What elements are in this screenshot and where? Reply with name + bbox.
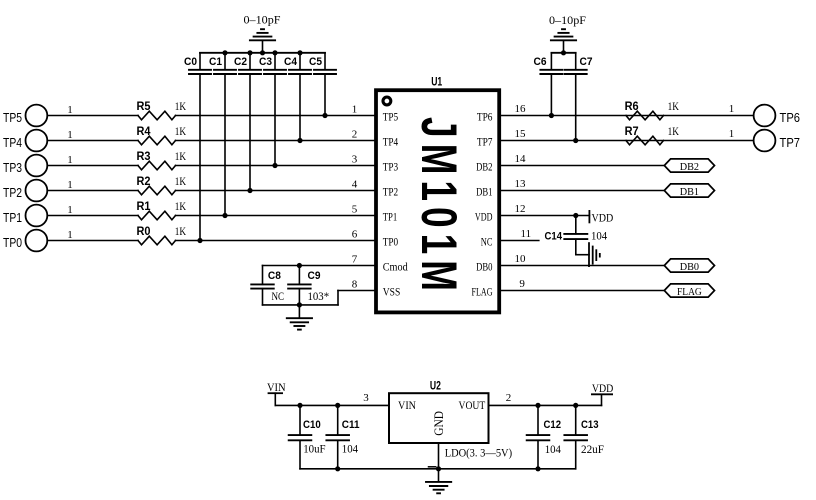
svg-text:JM101M: JM101M bbox=[411, 117, 467, 297]
svg-text:C14: C14 bbox=[545, 231, 563, 243]
svg-text:10: 10 bbox=[515, 253, 527, 265]
svg-text:TP4: TP4 bbox=[3, 135, 22, 150]
svg-text:1: 1 bbox=[67, 229, 73, 241]
svg-text:C12: C12 bbox=[544, 419, 562, 431]
svg-text:1K: 1K bbox=[175, 201, 187, 213]
svg-text:104: 104 bbox=[545, 444, 561, 456]
svg-text:TP3: TP3 bbox=[3, 160, 22, 175]
svg-text:3: 3 bbox=[363, 392, 369, 404]
svg-text:4: 4 bbox=[352, 179, 358, 191]
svg-text:VSS: VSS bbox=[383, 287, 401, 299]
svg-text:TP2: TP2 bbox=[3, 185, 22, 200]
svg-text:DB2: DB2 bbox=[680, 162, 699, 173]
svg-text:FLAG: FLAG bbox=[472, 287, 493, 299]
svg-text:TP5: TP5 bbox=[3, 110, 22, 125]
svg-text:2: 2 bbox=[506, 392, 512, 404]
svg-text:FLAG: FLAG bbox=[677, 287, 702, 298]
svg-text:9: 9 bbox=[519, 278, 525, 290]
svg-text:Cmod: Cmod bbox=[383, 262, 408, 274]
svg-text:1: 1 bbox=[729, 103, 735, 115]
svg-text:104: 104 bbox=[591, 231, 607, 243]
svg-text:TP6: TP6 bbox=[780, 110, 801, 125]
svg-text:VOUT: VOUT bbox=[459, 398, 486, 412]
svg-text:DB0: DB0 bbox=[476, 262, 493, 274]
svg-text:C10: C10 bbox=[303, 419, 321, 431]
svg-text:104: 104 bbox=[342, 444, 358, 456]
svg-text:11: 11 bbox=[521, 228, 532, 240]
svg-text:1: 1 bbox=[67, 154, 73, 166]
svg-text:C6: C6 bbox=[534, 56, 547, 68]
svg-text:DB2: DB2 bbox=[476, 162, 493, 174]
svg-text:22uF: 22uF bbox=[581, 444, 604, 456]
svg-text:1K: 1K bbox=[175, 151, 187, 163]
svg-text:DB0: DB0 bbox=[680, 262, 699, 273]
svg-text:R3: R3 bbox=[137, 149, 151, 163]
svg-text:C2: C2 bbox=[234, 56, 247, 68]
svg-text:103*: 103* bbox=[308, 291, 330, 303]
svg-text:C8: C8 bbox=[268, 270, 281, 282]
svg-text:TP0: TP0 bbox=[383, 237, 399, 249]
svg-text:C11: C11 bbox=[342, 419, 360, 431]
svg-text:TP2: TP2 bbox=[383, 187, 399, 199]
svg-text:TP5: TP5 bbox=[383, 112, 399, 124]
svg-text:NC: NC bbox=[481, 237, 493, 249]
svg-text:0–10pF: 0–10pF bbox=[244, 15, 281, 27]
svg-text:1K: 1K bbox=[668, 126, 680, 138]
svg-text:R0: R0 bbox=[137, 224, 151, 238]
svg-text:7: 7 bbox=[352, 254, 358, 266]
svg-text:1: 1 bbox=[67, 179, 73, 191]
svg-text:R5: R5 bbox=[137, 99, 151, 113]
svg-text:C13: C13 bbox=[581, 419, 599, 431]
svg-text:DB1: DB1 bbox=[476, 187, 493, 199]
svg-text:3: 3 bbox=[352, 154, 358, 166]
svg-text:TP7: TP7 bbox=[477, 137, 493, 149]
svg-text:12: 12 bbox=[515, 203, 526, 215]
svg-text:2: 2 bbox=[352, 129, 358, 141]
svg-text:VDD: VDD bbox=[592, 383, 614, 395]
svg-text:1K: 1K bbox=[175, 101, 187, 113]
svg-text:NC: NC bbox=[272, 291, 285, 303]
svg-text:C7: C7 bbox=[580, 56, 593, 68]
svg-text:1: 1 bbox=[729, 128, 735, 140]
svg-text:VIN: VIN bbox=[398, 398, 416, 412]
svg-text:1: 1 bbox=[352, 104, 358, 116]
svg-text:1K: 1K bbox=[668, 101, 680, 113]
svg-text:6: 6 bbox=[352, 229, 358, 241]
svg-text:1: 1 bbox=[67, 204, 73, 216]
svg-text:C4: C4 bbox=[284, 56, 298, 68]
svg-text:TP3: TP3 bbox=[383, 162, 399, 174]
svg-text:U2: U2 bbox=[430, 378, 441, 392]
svg-text:R2: R2 bbox=[137, 174, 151, 188]
svg-text:14: 14 bbox=[515, 153, 527, 165]
svg-text:8: 8 bbox=[352, 279, 358, 291]
svg-text:C5: C5 bbox=[309, 56, 322, 68]
svg-text:1: 1 bbox=[67, 104, 73, 116]
svg-text:TP7: TP7 bbox=[780, 135, 801, 150]
svg-text:LDO(3. 3—5V): LDO(3. 3—5V) bbox=[445, 448, 513, 460]
svg-text:16: 16 bbox=[515, 103, 527, 115]
svg-text:1: 1 bbox=[67, 129, 73, 141]
svg-text:C3: C3 bbox=[259, 56, 272, 68]
svg-text:15: 15 bbox=[515, 128, 527, 140]
svg-text:C0: C0 bbox=[184, 56, 197, 68]
svg-text:10uF: 10uF bbox=[303, 444, 325, 456]
svg-text:U1: U1 bbox=[431, 75, 442, 89]
svg-text:GND: GND bbox=[432, 411, 446, 436]
svg-text:1K: 1K bbox=[175, 226, 187, 238]
svg-text:VDD: VDD bbox=[475, 212, 493, 224]
svg-text:C1: C1 bbox=[209, 56, 222, 68]
svg-text:5: 5 bbox=[352, 204, 358, 216]
svg-text:C9: C9 bbox=[308, 270, 321, 282]
svg-text:TP4: TP4 bbox=[383, 137, 399, 149]
svg-text:13: 13 bbox=[515, 178, 527, 190]
svg-text:TP1: TP1 bbox=[3, 210, 22, 225]
svg-text:DB1: DB1 bbox=[680, 187, 699, 198]
svg-text:1K: 1K bbox=[175, 176, 187, 188]
svg-text:R4: R4 bbox=[137, 124, 151, 138]
svg-text:R6: R6 bbox=[625, 99, 639, 113]
svg-text:1K: 1K bbox=[175, 126, 187, 138]
svg-text:TP6: TP6 bbox=[477, 112, 493, 124]
svg-text:R7: R7 bbox=[625, 124, 639, 138]
svg-text:0–10pF: 0–10pF bbox=[549, 15, 586, 27]
svg-text:R1: R1 bbox=[137, 199, 151, 213]
svg-text:TP0: TP0 bbox=[3, 235, 22, 250]
svg-text:TP1: TP1 bbox=[383, 212, 398, 224]
svg-text:VDD: VDD bbox=[592, 213, 614, 225]
